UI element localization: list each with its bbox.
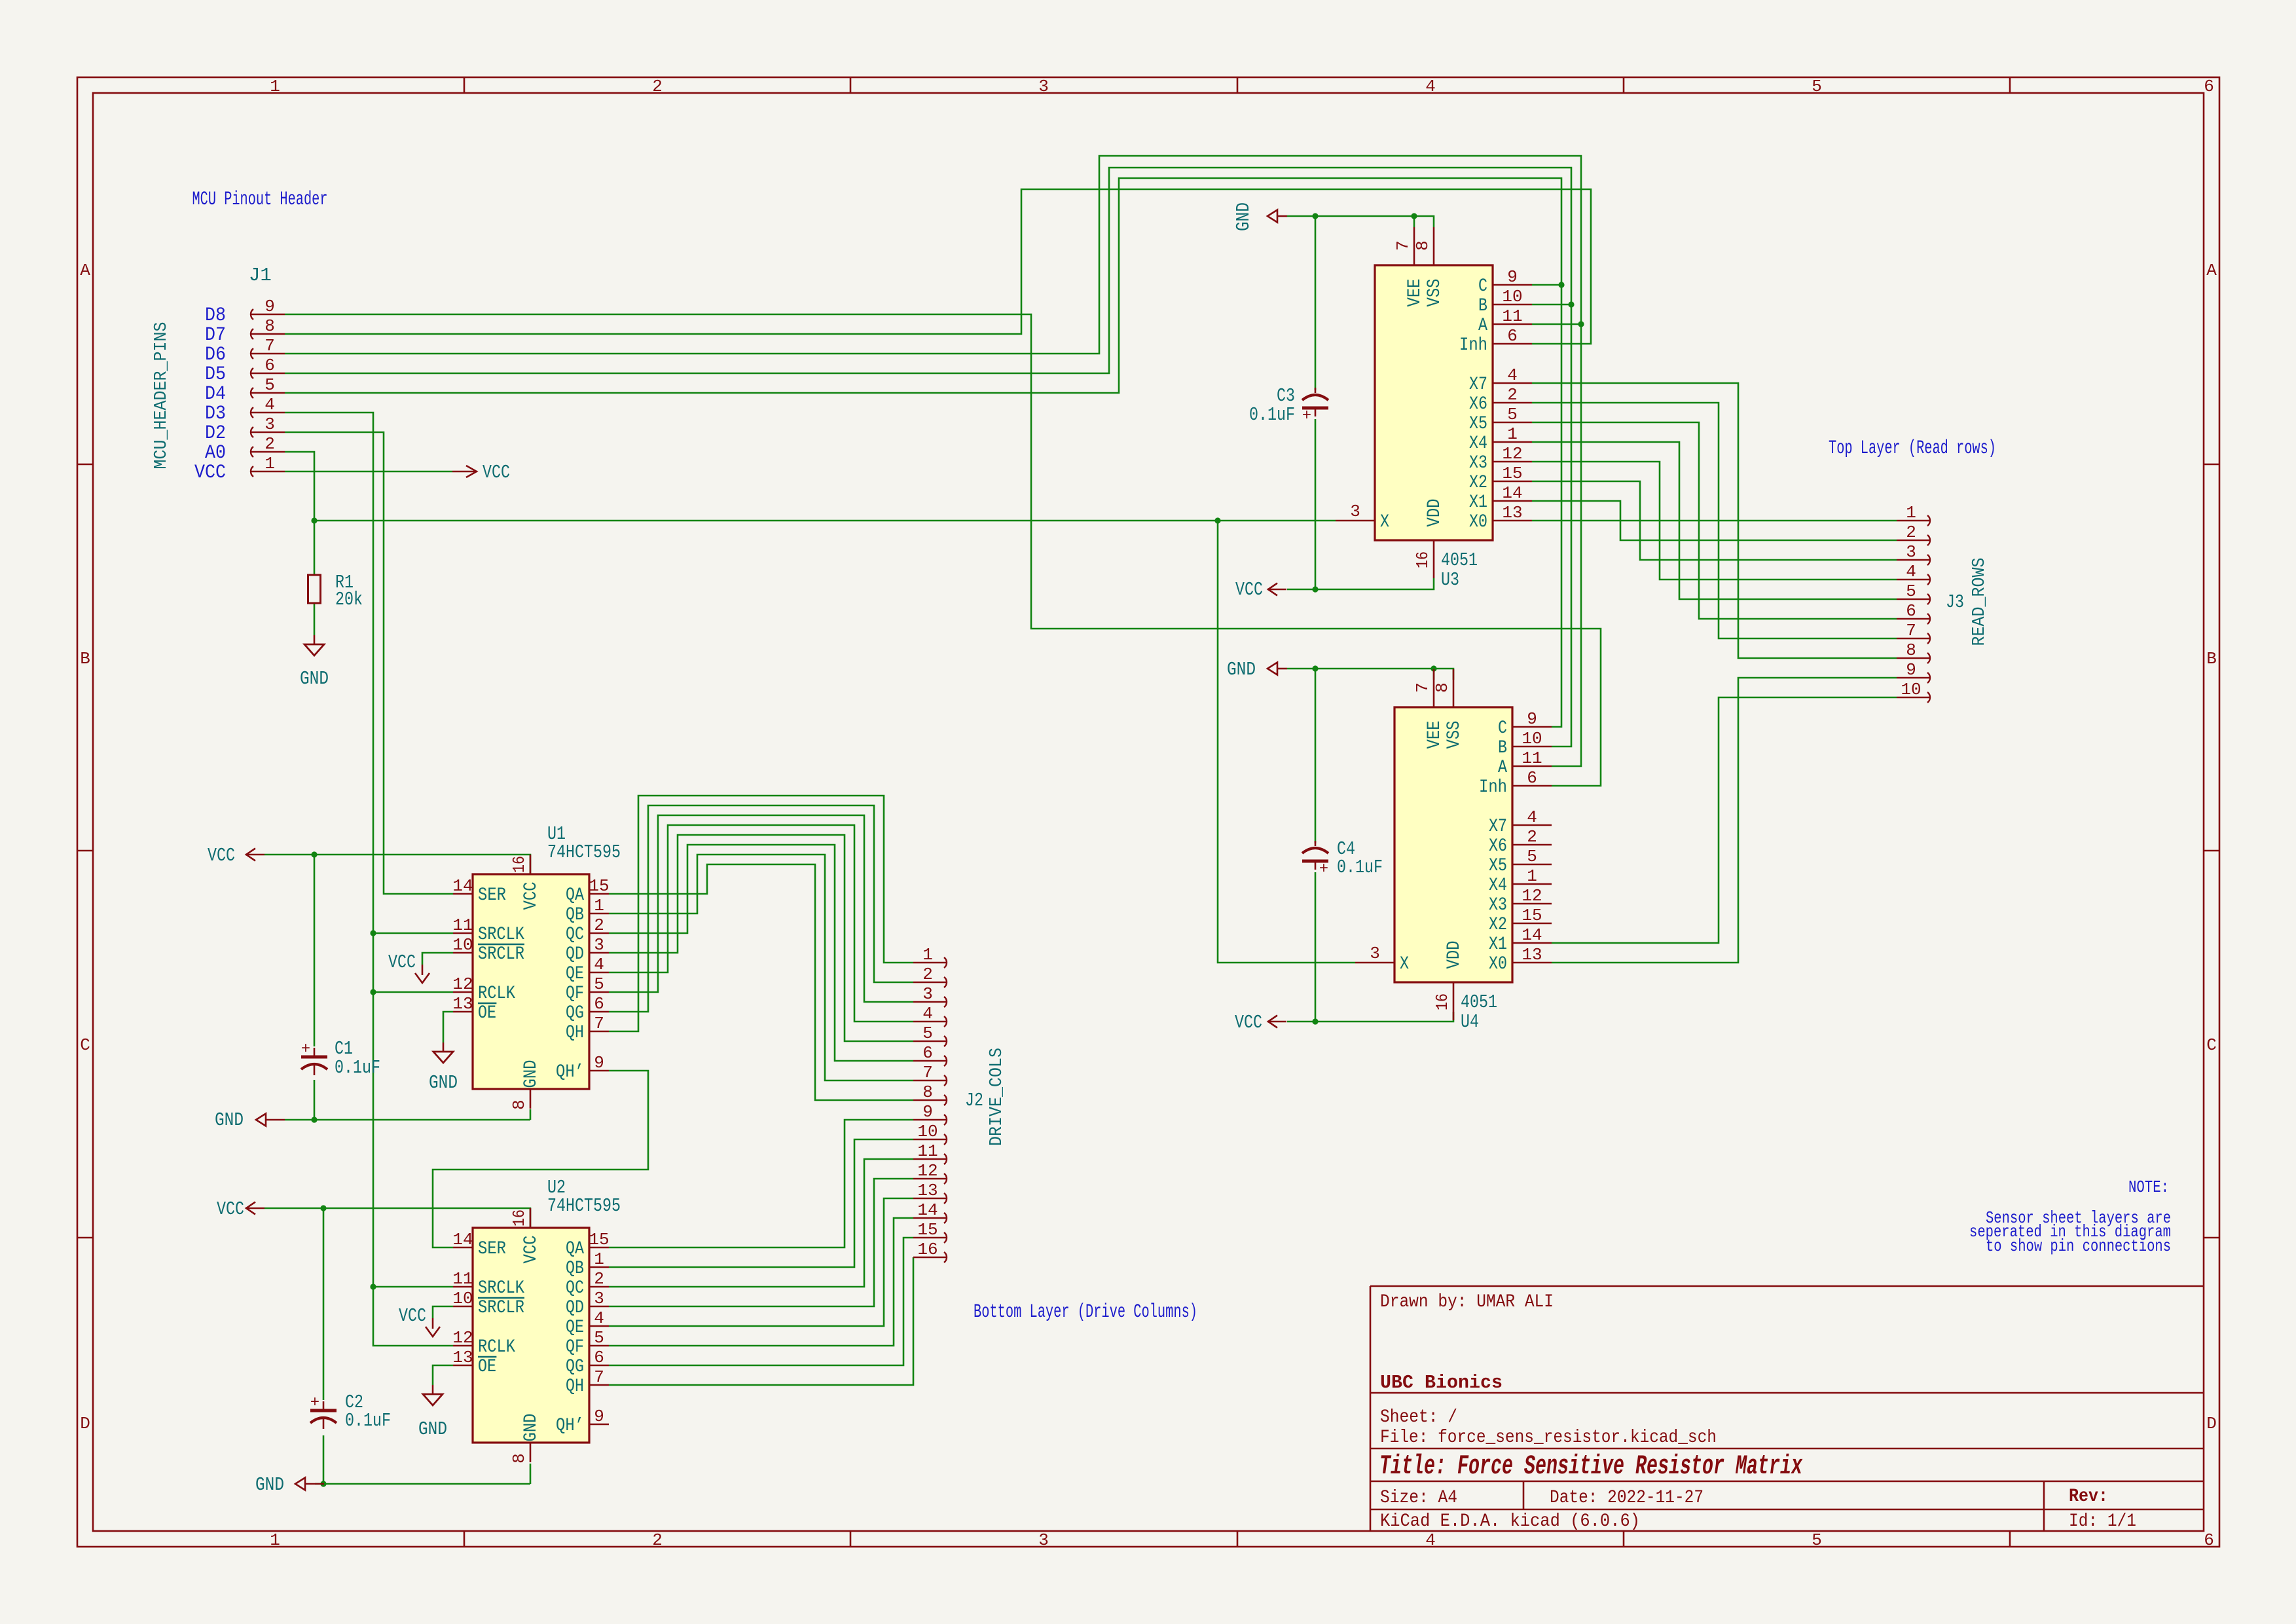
svg-text:1: 1	[270, 1530, 280, 1550]
svg-text:4: 4	[1507, 365, 1518, 385]
svg-text:X2: X2	[1469, 473, 1487, 493]
svg-text:11: 11	[452, 915, 473, 935]
svg-text:Rev:: Rev:	[2069, 1486, 2108, 1507]
svg-text:VCC: VCC	[388, 951, 416, 973]
svg-text:VCC: VCC	[1235, 579, 1263, 600]
svg-text:X5: X5	[1469, 414, 1487, 434]
svg-text:0.1uF: 0.1uF	[345, 1410, 391, 1431]
svg-text:Bottom Layer (Drive Columns): Bottom Layer (Drive Columns)	[974, 1301, 1197, 1323]
svg-text:9: 9	[264, 297, 275, 316]
svg-text:GND: GND	[300, 668, 329, 690]
svg-text:X6: X6	[1489, 836, 1507, 857]
svg-text:7: 7	[1906, 621, 1916, 640]
svg-text:X3: X3	[1489, 895, 1507, 915]
svg-text:D3: D3	[205, 403, 226, 425]
svg-text:15: 15	[589, 876, 609, 896]
svg-text:4: 4	[1906, 562, 1916, 581]
svg-text:VDD: VDD	[1425, 499, 1445, 527]
svg-text:3: 3	[594, 1289, 604, 1308]
svg-text:X0: X0	[1469, 512, 1487, 532]
svg-text:X5: X5	[1489, 856, 1507, 876]
svg-text:QF: QF	[566, 1337, 584, 1357]
svg-text:13: 13	[1502, 503, 1522, 523]
svg-text:6: 6	[1507, 326, 1518, 346]
svg-text:SRCLR: SRCLR	[478, 1298, 524, 1318]
svg-text:1: 1	[1906, 503, 1916, 523]
svg-text:5: 5	[264, 375, 275, 395]
svg-text:QA: QA	[566, 1239, 584, 1259]
svg-text:9: 9	[922, 1102, 933, 1122]
svg-text:Drawn by: UMAR ALI: Drawn by: UMAR ALI	[1380, 1292, 1554, 1312]
svg-text:5: 5	[1812, 1530, 1822, 1550]
svg-text:X1: X1	[1469, 492, 1487, 513]
svg-text:A: A	[1498, 758, 1507, 778]
svg-text:X1: X1	[1489, 934, 1507, 955]
svg-text:1: 1	[922, 945, 933, 965]
svg-text:Id: 1/1: Id: 1/1	[2069, 1511, 2136, 1532]
svg-text:X7: X7	[1489, 817, 1507, 837]
svg-text:+: +	[1302, 407, 1311, 425]
svg-text:D8: D8	[205, 304, 226, 327]
svg-text:2: 2	[1906, 523, 1916, 542]
svg-text:11: 11	[917, 1141, 938, 1161]
svg-text:7: 7	[594, 1014, 604, 1033]
svg-text:16: 16	[1432, 993, 1452, 1010]
svg-text:15: 15	[589, 1230, 609, 1249]
svg-text:VCC: VCC	[217, 1198, 244, 1220]
svg-text:GND: GND	[429, 1072, 458, 1094]
svg-text:2: 2	[594, 1269, 604, 1289]
svg-text:GND: GND	[215, 1109, 244, 1131]
svg-text:OE: OE	[478, 1003, 496, 1024]
svg-text:J3: J3	[1946, 591, 1964, 613]
svg-text:VDD: VDD	[1444, 941, 1465, 969]
svg-text:RCLK: RCLK	[478, 1337, 515, 1357]
svg-text:3: 3	[1038, 1530, 1049, 1550]
svg-text:D6: D6	[205, 344, 226, 366]
svg-text:B: B	[1478, 296, 1487, 316]
svg-text:RCLK: RCLK	[478, 984, 515, 1004]
svg-text:U3: U3	[1441, 569, 1459, 591]
svg-text:A0: A0	[205, 442, 226, 464]
svg-text:X6: X6	[1469, 394, 1487, 415]
svg-text:16: 16	[917, 1240, 938, 1259]
svg-text:QH: QH	[566, 1023, 584, 1043]
svg-text:QH’: QH’	[556, 1062, 584, 1082]
svg-text:X: X	[1400, 954, 1409, 974]
svg-text:16: 16	[509, 856, 529, 873]
svg-text:KiCad E.D.A. kicad (6.0.6): KiCad E.D.A. kicad (6.0.6)	[1380, 1511, 1640, 1532]
svg-text:5: 5	[922, 1024, 933, 1043]
svg-text:VSS: VSS	[1425, 279, 1445, 307]
svg-text:B: B	[2206, 649, 2217, 669]
svg-text:D5: D5	[205, 363, 226, 386]
svg-text:6: 6	[264, 356, 275, 375]
svg-text:14: 14	[917, 1200, 938, 1220]
svg-text:QH: QH	[566, 1376, 584, 1397]
svg-text:VEE: VEE	[1425, 721, 1445, 749]
svg-text:15: 15	[917, 1220, 938, 1240]
svg-text:READ_ROWS: READ_ROWS	[1970, 558, 1990, 646]
svg-text:2: 2	[264, 434, 275, 454]
svg-text:12: 12	[452, 974, 473, 994]
svg-text:10: 10	[1901, 680, 1921, 699]
svg-text:14: 14	[1502, 483, 1522, 503]
svg-text:to show pin connections: to show pin connections	[1986, 1236, 2171, 1256]
svg-text:D4: D4	[205, 383, 226, 405]
svg-text:SRCLK: SRCLK	[478, 925, 524, 945]
svg-text:VCC: VCC	[194, 462, 226, 484]
svg-text:File: force_sens_resistor.kica: File: force_sens_resistor.kicad_sch	[1380, 1428, 1717, 1448]
svg-text:5: 5	[1906, 581, 1916, 601]
svg-text:14: 14	[1522, 925, 1542, 945]
svg-text:8: 8	[264, 316, 275, 336]
svg-text:J2: J2	[965, 1090, 983, 1111]
svg-text:QB: QB	[566, 905, 584, 925]
svg-text:Inh: Inh	[1459, 335, 1487, 356]
svg-text:3: 3	[1906, 542, 1916, 562]
svg-text:5: 5	[1812, 77, 1822, 96]
svg-text:16: 16	[509, 1209, 529, 1227]
svg-text:MCU_HEADER_PINS: MCU_HEADER_PINS	[152, 322, 172, 470]
svg-text:C: C	[1478, 276, 1487, 297]
svg-text:3: 3	[264, 415, 275, 434]
svg-text:10: 10	[917, 1122, 938, 1141]
svg-text:VEE: VEE	[1405, 279, 1425, 307]
svg-text:4051: 4051	[1441, 549, 1478, 571]
svg-text:10: 10	[452, 1289, 473, 1308]
svg-text:6: 6	[922, 1043, 933, 1063]
svg-text:13: 13	[1522, 945, 1542, 965]
svg-text:GND: GND	[1233, 202, 1254, 231]
svg-text:1: 1	[594, 1249, 604, 1269]
svg-text:0.1uF: 0.1uF	[1337, 857, 1383, 878]
svg-text:QG: QG	[566, 1003, 584, 1024]
svg-text:D2: D2	[205, 422, 226, 445]
svg-text:MCU Pinout Header: MCU Pinout Header	[192, 189, 328, 211]
svg-text:QC: QC	[566, 925, 584, 945]
svg-text:2: 2	[1527, 827, 1537, 847]
svg-text:14: 14	[452, 1230, 473, 1249]
svg-text:8: 8	[1413, 240, 1432, 251]
svg-text:D7: D7	[205, 324, 226, 346]
svg-text:7: 7	[1393, 240, 1413, 251]
svg-text:3: 3	[594, 935, 604, 955]
svg-text:X2: X2	[1489, 915, 1507, 935]
svg-text:GND: GND	[521, 1060, 541, 1088]
svg-text:1: 1	[264, 454, 275, 473]
svg-text:14: 14	[452, 876, 473, 896]
svg-text:+: +	[310, 1394, 319, 1412]
svg-text:A: A	[80, 261, 90, 280]
svg-text:SRCLK: SRCLK	[478, 1278, 524, 1299]
svg-text:74HCT595: 74HCT595	[547, 1195, 621, 1217]
svg-text:GND: GND	[521, 1414, 541, 1442]
svg-text:2: 2	[652, 77, 663, 96]
svg-text:X0: X0	[1489, 954, 1507, 974]
svg-text:5: 5	[1527, 847, 1537, 866]
svg-text:3: 3	[1038, 77, 1049, 96]
svg-text:1: 1	[594, 896, 604, 915]
svg-text:Inh: Inh	[1479, 777, 1507, 798]
svg-text:VSS: VSS	[1444, 721, 1465, 749]
svg-text:QE: QE	[566, 1318, 584, 1338]
svg-text:X7: X7	[1469, 375, 1487, 395]
svg-text:SRCLR: SRCLR	[478, 944, 524, 965]
svg-text:11: 11	[1502, 306, 1522, 326]
svg-text:A: A	[1478, 316, 1487, 336]
svg-text:12: 12	[1522, 886, 1542, 906]
svg-text:+: +	[1319, 860, 1328, 878]
svg-text:U4: U4	[1461, 1011, 1479, 1033]
svg-text:15: 15	[1522, 906, 1542, 925]
svg-text:Date: 2022-11-27: Date: 2022-11-27	[1550, 1488, 1704, 1508]
svg-text:5: 5	[594, 1328, 604, 1348]
svg-text:UBC Bionics: UBC Bionics	[1380, 1372, 1503, 1393]
svg-text:1: 1	[1507, 424, 1518, 444]
svg-text:VCC: VCC	[483, 462, 510, 483]
svg-text:3: 3	[922, 984, 933, 1004]
svg-text:QD: QD	[566, 1298, 584, 1318]
svg-text:1: 1	[270, 77, 280, 96]
svg-text:DRIVE_COLS: DRIVE_COLS	[987, 1048, 1007, 1146]
svg-text:9: 9	[594, 1053, 604, 1073]
svg-text:OE: OE	[478, 1357, 496, 1377]
svg-text:X4: X4	[1469, 434, 1487, 454]
svg-text:16: 16	[1413, 551, 1432, 568]
svg-text:QD: QD	[566, 944, 584, 965]
svg-text:74HCT595: 74HCT595	[547, 841, 621, 863]
svg-text:X4: X4	[1489, 876, 1507, 896]
svg-text:VCC: VCC	[1235, 1012, 1262, 1033]
svg-text:10: 10	[452, 935, 473, 955]
svg-text:4: 4	[1527, 807, 1537, 827]
svg-text:7: 7	[922, 1063, 933, 1082]
svg-text:4: 4	[1425, 77, 1436, 96]
svg-text:9: 9	[1507, 267, 1518, 287]
svg-text:3: 3	[1370, 944, 1380, 963]
svg-text:VCC: VCC	[208, 845, 235, 866]
svg-text:11: 11	[1522, 748, 1542, 768]
svg-text:4: 4	[264, 395, 275, 415]
svg-text:2: 2	[594, 915, 604, 935]
svg-text:6: 6	[594, 1348, 604, 1367]
svg-text:QG: QG	[566, 1357, 584, 1377]
svg-text:VCC: VCC	[521, 1236, 541, 1264]
svg-text:6: 6	[1527, 768, 1537, 788]
svg-text:4: 4	[594, 955, 604, 974]
svg-text:6: 6	[594, 994, 604, 1014]
svg-text:5: 5	[1507, 405, 1518, 424]
svg-text:SER: SER	[478, 885, 506, 906]
svg-text:8: 8	[1906, 640, 1916, 660]
svg-text:8: 8	[509, 1099, 529, 1110]
svg-text:13: 13	[452, 994, 473, 1014]
svg-text:9: 9	[1906, 660, 1916, 680]
svg-text:Size: A4: Size: A4	[1380, 1488, 1457, 1508]
svg-text:7: 7	[594, 1367, 604, 1387]
svg-text:6: 6	[2204, 77, 2214, 96]
svg-text:12: 12	[452, 1328, 473, 1348]
svg-text:8: 8	[509, 1453, 529, 1464]
svg-text:B: B	[80, 649, 90, 669]
svg-text:Sheet: /: Sheet: /	[1380, 1407, 1457, 1428]
svg-text:QA: QA	[566, 885, 584, 906]
svg-text:7: 7	[1413, 682, 1432, 693]
svg-text:3: 3	[1350, 502, 1360, 521]
svg-text:QC: QC	[566, 1278, 584, 1299]
svg-text:11: 11	[452, 1269, 473, 1289]
svg-text:Top Layer (Read rows): Top Layer (Read rows)	[1829, 437, 1996, 460]
svg-text:10: 10	[1502, 287, 1522, 306]
svg-text:13: 13	[452, 1348, 473, 1367]
svg-text:7: 7	[264, 336, 275, 356]
svg-text:GND: GND	[1227, 659, 1256, 680]
svg-text:A: A	[2206, 261, 2217, 280]
svg-text:QF: QF	[566, 984, 584, 1004]
svg-text:13: 13	[917, 1181, 938, 1200]
svg-text:C: C	[2206, 1035, 2217, 1055]
svg-text:2: 2	[1507, 385, 1518, 405]
svg-text:VCC: VCC	[521, 882, 541, 910]
svg-text:6: 6	[2204, 1530, 2214, 1550]
svg-text:20k: 20k	[335, 589, 363, 610]
svg-text:0.1uF: 0.1uF	[1249, 404, 1295, 426]
svg-text:QH’: QH’	[556, 1416, 584, 1436]
svg-text:D: D	[2206, 1414, 2217, 1433]
svg-text:C: C	[80, 1035, 90, 1055]
svg-text:4: 4	[594, 1308, 604, 1328]
svg-text:J1: J1	[249, 265, 272, 286]
svg-text:9: 9	[1527, 709, 1537, 729]
svg-text:4: 4	[922, 1004, 933, 1024]
svg-text:12: 12	[1502, 444, 1522, 464]
svg-text:1: 1	[1527, 866, 1537, 886]
svg-text:8: 8	[1432, 682, 1452, 693]
svg-text:VCC: VCC	[399, 1305, 426, 1327]
svg-text:GND: GND	[255, 1474, 284, 1496]
svg-text:+: +	[301, 1041, 310, 1058]
svg-text:15: 15	[1502, 464, 1522, 483]
svg-text:10: 10	[1522, 729, 1542, 748]
svg-text:Title: Force Sensitive Resisto: Title: Force Sensitive Resistor Matrix	[1379, 1450, 1803, 1482]
svg-text:2: 2	[652, 1530, 663, 1550]
svg-text:X: X	[1380, 512, 1389, 532]
svg-text:8: 8	[922, 1082, 933, 1102]
svg-text:0.1uF: 0.1uF	[335, 1057, 380, 1079]
svg-text:X3: X3	[1469, 453, 1487, 473]
svg-text:6: 6	[1906, 601, 1916, 621]
svg-text:9: 9	[594, 1407, 604, 1426]
svg-text:SER: SER	[478, 1239, 506, 1259]
svg-text:C: C	[1498, 718, 1507, 739]
svg-text:QB: QB	[566, 1259, 584, 1279]
svg-text:QE: QE	[566, 964, 584, 984]
svg-text:12: 12	[917, 1161, 938, 1181]
svg-text:4051: 4051	[1461, 991, 1497, 1013]
svg-text:2: 2	[922, 965, 933, 984]
svg-text:5: 5	[594, 974, 604, 994]
svg-text:4: 4	[1425, 1530, 1436, 1550]
svg-text:NOTE:: NOTE:	[2128, 1177, 2169, 1197]
svg-text:GND: GND	[418, 1418, 447, 1440]
svg-text:B: B	[1498, 738, 1507, 758]
svg-text:D: D	[80, 1414, 90, 1433]
